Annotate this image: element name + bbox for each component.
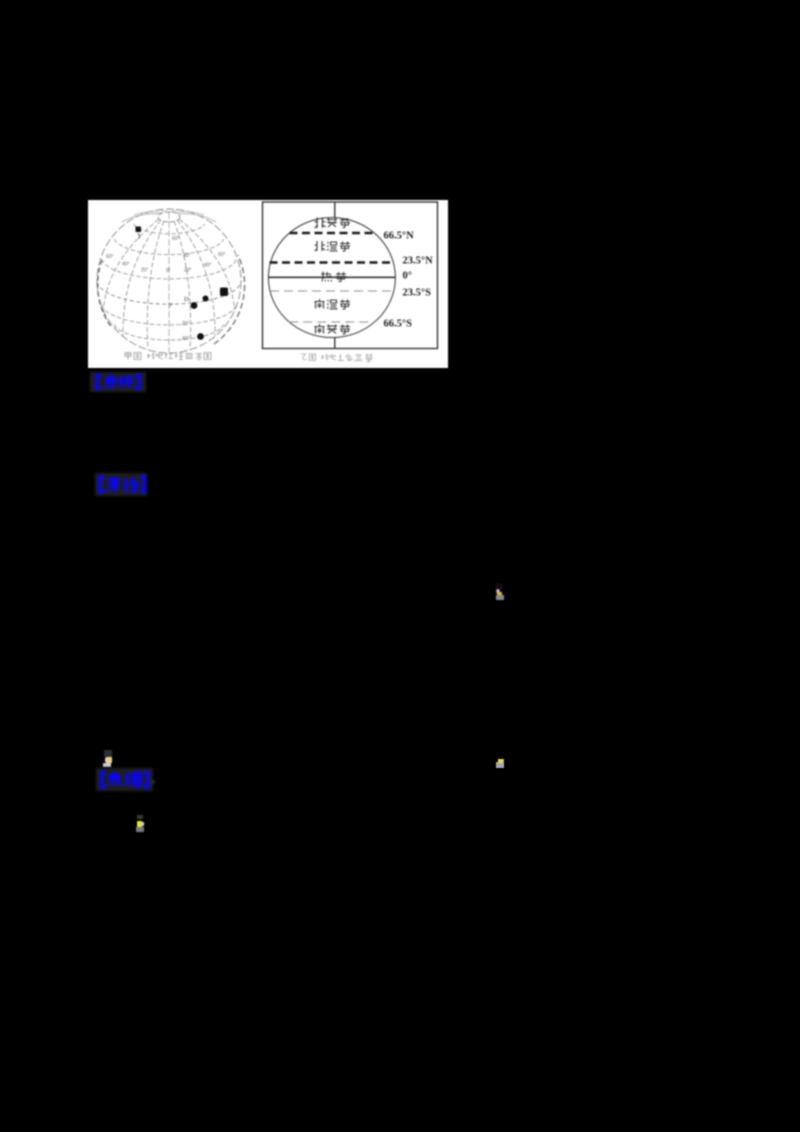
equator solid [268, 276, 395, 278]
甲图: globe with graticule [97, 209, 245, 353]
meridians [168, 212, 170, 353]
axis ticks [334, 202, 336, 349]
svg-text:60°: 60° [172, 236, 180, 242]
66.5N dashed [290, 232, 375, 234]
北温带 [315, 241, 351, 251]
globe degree labels [106, 236, 226, 342]
tiny icon mid right [494, 583, 505, 601]
latitude labels [384, 231, 434, 330]
caption 甲图 地球经纬网示意图 [125, 353, 211, 360]
svg-text:0°: 0° [169, 303, 174, 309]
南温带 [315, 299, 351, 309]
北寒带 [315, 218, 350, 229]
polar cap [158, 212, 180, 222]
svg-text:40°: 40° [182, 336, 190, 342]
globe outline [97, 209, 241, 353]
zone name pseudo-glyphs [315, 218, 351, 335]
svg-text:23.5°N: 23.5°N [403, 256, 434, 267]
svg-text:D: D [184, 296, 189, 303]
blue label 【详解】 [93, 470, 151, 500]
南寒带 [315, 324, 351, 334]
back meridian tips above cap [122, 210, 216, 223]
乙图: five zones diagram [263, 202, 438, 349]
svg-text:23.5°S: 23.5°S [403, 288, 432, 299]
66.5S light dashed [289, 321, 374, 323]
blue label 【点睛】 [94, 766, 156, 794]
svg-text:66.5°S: 66.5°S [384, 319, 413, 330]
tiny icon below 点睛 [135, 814, 145, 832]
svg-text:60°: 60° [218, 252, 226, 258]
svg-text:40°: 40° [183, 253, 191, 259]
scanned figure block (甲图 globe + 乙图 five zones) [88, 200, 448, 368]
热带 [321, 272, 346, 282]
svg-text:20°: 20° [184, 268, 192, 274]
svg-text:66.5°N: 66.5°N [384, 231, 415, 242]
parallels [134, 224, 205, 234]
svg-text:40°: 40° [122, 262, 130, 268]
23.5N dashed [270, 261, 395, 263]
blue label 【分析】 [88, 370, 150, 396]
svg-text:0°: 0° [166, 268, 171, 274]
svg-text:40°: 40° [204, 263, 212, 269]
tiny icon right (sticky note) [496, 758, 505, 768]
svg-text:20°: 20° [141, 268, 149, 274]
svg-text:60°: 60° [106, 254, 114, 260]
svg-text:20°: 20° [182, 321, 190, 327]
caption 乙图 地球上的五带 [301, 353, 373, 362]
tiny icon above 点睛 [103, 750, 113, 767]
globe points [136, 227, 229, 340]
svg-text:0°: 0° [403, 271, 412, 282]
23.5S light dashed [270, 290, 394, 292]
